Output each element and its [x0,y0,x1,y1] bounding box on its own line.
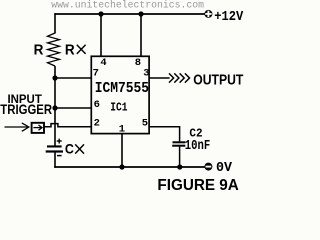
wire pin7 [55,77,92,79]
capacitor Cx plus sign [57,139,62,144]
op IC1 box ICM7555 [91,56,149,133]
svg-text:OUTPUT: OUTPUT [193,72,244,89]
node junction pin1/rail [119,164,124,169]
+12V terminal [204,10,212,18]
svg-text:8: 8 [135,57,141,69]
wire left drop to resistor [54,13,56,34]
capacitor Cx minus sign [57,155,62,157]
capacitor Cx top plate [47,145,62,147]
svg-text:C: C [65,141,74,157]
input arrow [5,123,29,131]
svg-text:4: 4 [100,57,106,69]
wire pin3 output [149,77,170,79]
svg-text:TRIGGER: TRIGGER [0,101,52,117]
wire pin1 to bottom rail [121,134,123,167]
svg-text:10nF: 10nF [185,138,210,154]
svg-text:5: 5 [142,118,148,130]
wire C2 to bottom rail [179,147,181,167]
svg-text:IC1: IC1 [110,101,127,115]
label x (R multiplier X) [77,45,86,54]
wire pin6 [55,107,92,109]
node junction pin8/rail [138,11,143,16]
svg-text:+12V: +12V [214,10,244,25]
input connector box [32,123,44,133]
svg-text:www.unitechelectronics.com: www.unitechelectronics.com [51,0,204,12]
wire pin5 to C2 [149,127,180,142]
svg-text:0V: 0V [216,161,233,176]
label x (Cx multiplier X) [75,144,84,153]
svg-text:R: R [34,42,44,59]
svg-text:3: 3 [143,68,149,80]
wire resistor bottom to capacitor Cx [54,66,56,146]
wire pin4 to +12V rail [100,14,102,56]
node junction C2/rail [177,164,182,169]
output chevrons [169,73,190,82]
svg-text:R: R [65,42,75,59]
wire pin8 to +12V rail [140,14,142,56]
node junction pin4/rail [98,11,103,16]
capacitor C2 bottom plate [172,145,185,147]
0V terminal [204,163,212,171]
svg-text:FIGURE 9A: FIGURE 9A [157,177,238,194]
svg-text:2: 2 [94,118,100,130]
wire bottom rail [54,166,205,168]
wire top rail [55,13,205,15]
capacitor Cx bottom plate [46,150,63,152]
svg-text:6: 6 [94,99,100,111]
node junction pin6 [52,105,57,110]
svg-text:7: 7 [93,68,99,80]
wire trigger to pin2 with hop [44,124,92,127]
capacitor C2 top plate [173,141,186,143]
wire Cx to bottom rail [54,153,56,168]
svg-text:ICM7555: ICM7555 [95,79,149,97]
input connector inner arrow [33,125,42,130]
node junction R/pin7 [52,75,57,80]
resistor R (zigzag) [48,33,60,66]
